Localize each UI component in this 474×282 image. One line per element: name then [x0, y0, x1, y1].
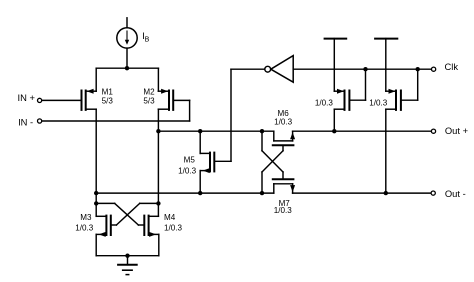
svg-text:B: B — [145, 36, 150, 43]
svg-text:1/0.3: 1/0.3 — [75, 223, 94, 232]
svg-text:1/0.3: 1/0.3 — [178, 167, 197, 176]
svg-text:5/3: 5/3 — [143, 97, 155, 106]
svg-text:Out +: Out + — [445, 125, 469, 136]
svg-text:IN -: IN - — [18, 116, 33, 127]
svg-text:1/0.3: 1/0.3 — [164, 223, 183, 232]
svg-text:1/0.3: 1/0.3 — [315, 99, 334, 108]
svg-text:M4: M4 — [164, 213, 176, 222]
svg-text:1/0.3: 1/0.3 — [274, 206, 293, 215]
svg-text:M5: M5 — [184, 156, 196, 165]
svg-text:M1: M1 — [102, 87, 114, 96]
svg-text:Clk: Clk — [445, 61, 459, 72]
svg-text:1/0.3: 1/0.3 — [369, 99, 388, 108]
svg-text:1/0.3: 1/0.3 — [274, 118, 293, 127]
svg-text:5/3: 5/3 — [102, 97, 114, 106]
svg-text:IN +: IN + — [18, 92, 36, 103]
svg-text:M3: M3 — [80, 213, 92, 222]
svg-text:Out -: Out - — [445, 188, 466, 199]
svg-text:M2: M2 — [143, 87, 155, 96]
